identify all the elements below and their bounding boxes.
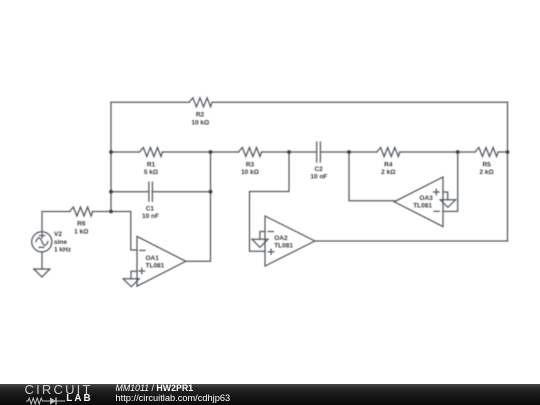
ground below V2 [34,269,50,277]
svg-text:10 nF: 10 nF [310,174,327,181]
CircuitLab logo LAB text [66,394,92,404]
svg-text:2 kΩ: 2 kΩ [381,169,395,176]
svg-text:R1: R1 [147,161,156,168]
svg-text:R2: R2 [196,112,205,119]
svg-text:OA2: OA2 [274,235,288,242]
resistor R2 [189,98,212,127]
wire row y152: R5 to right rail [498,151,507,153]
wire OA1 output to node B vertical [186,152,211,261]
voltage source V2 [32,231,72,253]
node junction dot x111 y152 [109,150,113,154]
svg-text:TL081: TL081 [146,262,165,269]
wire node B down to OA2 plus input [250,152,290,251]
svg-text:1 kHz: 1 kHz [54,247,72,254]
node junction dot x458 y152 [456,150,460,154]
wire node C down to OA3 output apex [349,152,394,201]
node junction dot x289 y152 [287,150,291,154]
resistor R4 [377,148,400,177]
svg-text:10 kΩ: 10 kΩ [241,169,259,176]
wire C1 row left [111,191,149,193]
capacitor C1 [142,182,159,220]
resistor R5 [475,148,498,177]
footer title text [116,384,194,393]
svg-text:TL081: TL081 [274,243,293,250]
wire row y152: R1 to R3 through node B [163,151,239,153]
op-amp OA3 [394,177,443,227]
footer black bar [0,384,540,405]
svg-text:2 kΩ: 2 kΩ [479,169,493,176]
op-amp OA2 [265,216,315,266]
node junction dot x210 y152 [209,150,213,154]
wire row y152: C2 to R4 [321,151,377,153]
wire right rail [507,102,509,241]
wire node D down to OA3 minus input [443,152,458,211]
CircuitLab logo resistor-diode glyph [26,397,68,405]
wire source top to R6 [42,212,70,232]
footer url text [116,394,231,403]
op-amp OA1 [137,236,186,286]
resistor R3 [239,148,262,177]
svg-text:1 kΩ: 1 kΩ [74,228,88,235]
wire top rail right segment [212,101,507,103]
capacitor C2 [310,142,327,181]
svg-text:OA3: OA3 [419,195,433,202]
svg-text:R4: R4 [384,161,393,168]
ground at OA2 minus input [252,232,268,248]
node junction dot x111 y191 [109,190,113,194]
node junction dot x210 y191 [209,190,213,194]
ground at OA3 plus input [440,192,455,207]
resistor R6 [70,207,93,235]
node junction dot x111 y211 [109,210,113,214]
svg-text:OA1: OA1 [146,255,160,262]
wire row y152: R3 to C2 [262,151,317,153]
wire left vertical [110,102,112,211]
svg-text:10 kΩ: 10 kΩ [191,119,209,126]
svg-text:R6: R6 [77,221,86,228]
ground at OA1 plus input [123,271,139,287]
node junction dot x507 y152 [506,150,510,154]
wire C1 row right [152,191,210,193]
svg-text:TL081: TL081 [413,203,432,210]
wire row y152: R4 to R5 [400,151,475,153]
wire OA2 output to right rail [315,240,508,242]
wire source bottom stem [41,252,43,269]
wire row y152: node A to R1 [111,151,140,153]
svg-text:C2: C2 [314,166,323,173]
svg-text:10 nF: 10 nF [142,213,159,220]
CircuitLab logo CIRCUIT text [25,384,93,396]
svg-text:5 kΩ: 5 kΩ [144,169,158,176]
wire top rail left segment [111,101,189,103]
svg-text:C1: C1 [146,206,155,213]
svg-text:V2: V2 [54,231,62,238]
wire R6 to OA1 minus input [93,212,137,251]
resistor R1 [140,148,163,177]
node junction dot x349 y152 [347,150,351,154]
svg-text:sine: sine [54,239,67,246]
svg-text:R5: R5 [482,161,491,168]
svg-text:R3: R3 [246,161,255,168]
